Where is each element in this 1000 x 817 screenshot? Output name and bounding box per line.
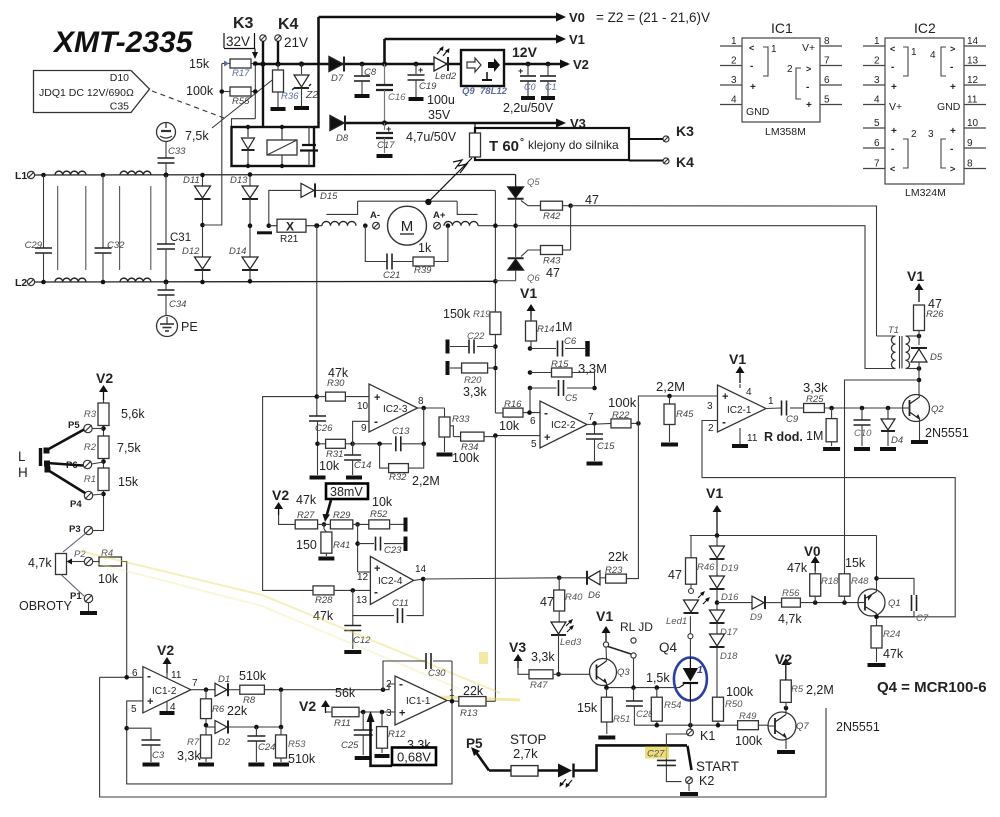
wire Q6 bottom to motor return: [495, 270, 515, 281]
diode D8: [330, 116, 344, 131]
svg-text:>: >: [950, 164, 955, 174]
diode D4: [887, 408, 889, 419]
resistor R51 15k: [606, 688, 608, 698]
svg-text:D5: D5: [930, 352, 943, 363]
capacitor C3: [124, 726, 129, 731]
svg-text:2,2M: 2,2M: [806, 683, 834, 697]
svg-text:Led2: Led2: [435, 71, 457, 82]
svg-text:47: 47: [928, 297, 942, 311]
svg-text:3: 3: [874, 75, 880, 86]
svg-text:D12: D12: [182, 246, 200, 257]
wire gate tie vertical: [570, 206, 572, 250]
resistor R11 56k: [332, 707, 359, 717]
wire Q3 emitter row: [604, 687, 679, 689]
svg-text:L: L: [18, 449, 26, 464]
svg-text:8: 8: [824, 36, 830, 47]
svg-text:C25: C25: [341, 740, 359, 751]
svg-text:V0: V0: [569, 10, 585, 25]
svg-text:+: +: [374, 392, 380, 404]
arrow 32V to R17 rail: [254, 49, 256, 53]
resistor R45 2,2M: [667, 394, 672, 399]
wire column to R16: [495, 412, 503, 414]
ground C3: [143, 763, 160, 767]
svg-text:R39: R39: [414, 265, 432, 276]
svg-text:R52: R52: [370, 509, 388, 520]
svg-text:8: 8: [418, 396, 424, 407]
svg-text:510k: 510k: [239, 669, 267, 683]
svg-text:R19: R19: [473, 309, 491, 320]
resistor R48 15k: [839, 574, 850, 596]
thermal fuse box T60: [475, 128, 629, 160]
svg-text:47k: 47k: [883, 647, 904, 661]
svg-text:T 60: T 60: [489, 138, 519, 155]
svg-text:V3: V3: [509, 639, 526, 655]
svg-text:C19: C19: [419, 81, 437, 92]
resistor R21 X: [267, 223, 272, 228]
svg-text:1,5k: 1,5k: [646, 671, 670, 685]
svg-text:47k: 47k: [787, 561, 808, 575]
svg-text:IC1-2: IC1-2: [152, 686, 177, 697]
svg-text:C23: C23: [384, 545, 402, 556]
resistor R34 100k: [461, 432, 484, 441]
ground R45: [661, 443, 678, 447]
svg-text:7,5k: 7,5k: [117, 441, 141, 455]
svg-text:R45: R45: [676, 409, 694, 420]
svg-text:3: 3: [731, 75, 737, 86]
junction R22 out: [636, 421, 641, 426]
regulator 78L12 box: [461, 50, 504, 86]
resistor R18 47k: [810, 574, 821, 596]
svg-text:11: 11: [967, 95, 978, 106]
junction R42: [568, 203, 573, 208]
capacitor C12: [352, 616, 354, 626]
inductor L1a: [55, 171, 86, 175]
wire V1 rail: [385, 38, 557, 41]
svg-text:C29: C29: [25, 240, 43, 251]
highlight stroke 4: [479, 652, 488, 664]
capacitor C19 100u: [414, 62, 419, 67]
svg-text:D11: D11: [183, 175, 200, 186]
ground R41: [318, 557, 334, 561]
svg-text:100k: 100k: [186, 84, 214, 98]
capacitor C30 feedback: [383, 661, 425, 690]
relay coil: [281, 127, 283, 140]
resistor R17 15k: [222, 63, 230, 65]
svg-text:C10: C10: [854, 428, 872, 439]
svg-text:D16: D16: [721, 592, 739, 603]
arrow V1: [556, 35, 566, 44]
svg-text:>: >: [806, 64, 811, 74]
resistor R32 2,2M: [380, 444, 389, 468]
svg-text:D4: D4: [891, 435, 903, 446]
diode chain D16: [716, 560, 718, 577]
svg-text:22k: 22k: [608, 550, 629, 564]
junction R18 R48 base: [813, 600, 818, 605]
capacitor C26: [309, 415, 326, 417]
ground C12: [344, 650, 361, 654]
wire L1 bus: [35, 174, 516, 177]
terminal bar C22: [446, 340, 450, 354]
wire Q1 emitter bottom: [876, 614, 878, 626]
wire relay to 21V node: [314, 122, 319, 127]
junction motor sense: [314, 223, 319, 228]
svg-text:100k: 100k: [735, 734, 763, 748]
transistor Q7 2N5551: [768, 712, 796, 740]
svg-text:Q2: Q2: [931, 404, 944, 415]
resistor R29 10k: [330, 520, 352, 529]
capacitor C23: [355, 541, 360, 546]
ground P1: [80, 611, 97, 615]
svg-text:V1: V1: [729, 351, 746, 367]
svg-text:2: 2: [787, 64, 793, 75]
svg-text:GND: GND: [746, 106, 770, 118]
diode D2: [206, 726, 215, 728]
junction R47 Led3: [556, 672, 561, 677]
svg-text:D19: D19: [721, 563, 739, 574]
wire Q2 base row: [843, 407, 903, 409]
wire stop mid: [538, 769, 558, 772]
svg-text:1: 1: [449, 688, 455, 699]
svg-text:6: 6: [530, 416, 536, 427]
svg-text:+: +: [950, 82, 956, 93]
svg-text:R23: R23: [605, 565, 623, 576]
svg-text:D13: D13: [230, 175, 248, 186]
svg-text:3: 3: [707, 401, 713, 412]
junction snubber right: [446, 223, 451, 228]
highlight C27: [645, 747, 669, 759]
svg-text:+: +: [518, 66, 523, 76]
svg-text:D10: D10: [110, 72, 129, 84]
resistor R15 3,3M: [528, 370, 533, 375]
resistor R36 7,5k: [277, 64, 279, 70]
svg-text:7: 7: [588, 412, 594, 423]
ground C25: [355, 756, 372, 760]
svg-text:D15: D15: [320, 191, 338, 202]
svg-text:9: 9: [361, 423, 367, 434]
capacitor C35: [308, 127, 310, 144]
svg-text:5: 5: [824, 95, 830, 106]
svg-text:5: 5: [531, 439, 537, 450]
diode D6 + R23 22k: [559, 577, 586, 579]
svg-text:10k: 10k: [98, 572, 119, 586]
svg-text:R6: R6: [212, 704, 225, 715]
choke core bars: [326, 201, 357, 214]
wire R23 riser to R22 node: [626, 423, 638, 578]
arrow V1 diode chain: [716, 512, 718, 536]
box 38mV: [326, 484, 368, 500]
svg-text:JDQ1 DC 12V/690Ω: JDQ1 DC 12V/690Ω: [39, 87, 134, 99]
capacitor C11 feedback: [353, 590, 394, 615]
wire Q4 cathode to K1: [689, 701, 691, 729]
thyristor Q6: [508, 259, 524, 270]
ground R53: [273, 763, 289, 767]
arrow V3 R47: [517, 661, 519, 668]
wire pin12 column: [357, 524, 359, 572]
svg-text:OBROTY: OBROTY: [19, 599, 72, 613]
svg-text:+: +: [544, 432, 550, 444]
potentiometer R12 3,3k: [381, 712, 383, 727]
svg-text:R53: R53: [288, 739, 306, 750]
resistor R19 150k: [490, 312, 501, 335]
LED stop optocoupler: [558, 764, 572, 778]
svg-text:L1: L1: [15, 170, 27, 182]
wire 21V riser to D8: [317, 64, 319, 123]
terminal K3 top: [260, 35, 266, 41]
capacitor C22: [493, 344, 498, 349]
svg-text:38mV: 38mV: [330, 485, 363, 499]
svg-text:+: +: [147, 696, 153, 708]
arrow V2 chain: [103, 392, 105, 400]
resistor R46 47: [686, 558, 697, 584]
ground R24: [868, 663, 886, 667]
arrow V2 IC1-2: [166, 664, 168, 673]
capacitor C21 snubber: [365, 226, 387, 262]
svg-text:R2: R2: [84, 442, 97, 453]
switch K1: [687, 729, 694, 736]
potentiometer R33: [444, 408, 446, 417]
svg-text:100k: 100k: [726, 685, 754, 699]
wire K4 column: [277, 41, 279, 64]
svg-text:R21: R21: [280, 234, 299, 245]
resistor R7 3,3k: [205, 727, 207, 735]
svg-text:+: +: [374, 563, 380, 575]
svg-text:1M: 1M: [806, 429, 823, 443]
capacitor C10: [861, 408, 863, 420]
arrow V0: [556, 13, 566, 22]
svg-text:R25: R25: [806, 394, 824, 405]
resistor R24 47k: [871, 626, 882, 648]
arrow V0 R18: [814, 563, 816, 571]
ground C24: [248, 763, 264, 767]
svg-text:IC2-3: IC2-3: [383, 404, 408, 415]
svg-text:12: 12: [357, 572, 369, 583]
capacitor C13 feedback: [353, 443, 392, 445]
ground K2: [680, 792, 698, 796]
svg-text:100k: 100k: [608, 395, 637, 410]
neon lamp: [157, 123, 176, 142]
svg-text:-: -: [806, 82, 809, 93]
svg-text:Led1: Led1: [666, 616, 687, 627]
svg-text:Q7: Q7: [796, 721, 809, 732]
svg-text:10: 10: [357, 401, 369, 412]
capacitor C31: [164, 173, 169, 178]
svg-text:-: -: [399, 677, 403, 691]
wire K4 stub: [629, 160, 663, 162]
svg-text:R3: R3: [84, 409, 97, 420]
svg-text:47: 47: [546, 266, 560, 280]
junction R28 pin13: [351, 588, 356, 593]
svg-text:-: -: [750, 61, 753, 72]
svg-text:5,6k: 5,6k: [121, 407, 145, 421]
svg-text:K2: K2: [699, 774, 714, 788]
resistor R54 1,5k: [656, 688, 658, 698]
svg-text:R49: R49: [739, 711, 757, 722]
LED Led3: [558, 611, 560, 622]
svg-text:+: +: [891, 82, 897, 93]
resistor R20 3,3k: [493, 366, 498, 371]
svg-text:-: -: [544, 406, 548, 420]
wire L2 bus: [35, 280, 495, 283]
svg-text:STOP: STOP: [510, 732, 547, 747]
ground C0: [521, 96, 535, 100]
terminal bar R20: [446, 361, 450, 375]
svg-text:15k: 15k: [845, 556, 866, 570]
resistor R25 3,3k: [804, 404, 825, 413]
svg-text:C30: C30: [428, 668, 446, 679]
inductor L1b: [120, 171, 151, 175]
svg-text:-: -: [950, 144, 953, 155]
svg-text:Q4 = MCR100-6: Q4 = MCR100-6: [877, 679, 987, 696]
wiper R12 to 0,68V: [371, 722, 393, 766]
svg-text:3,3k: 3,3k: [531, 650, 555, 664]
wire K3 column: [262, 41, 264, 127]
svg-text:R11: R11: [334, 718, 351, 729]
motor M: [388, 206, 427, 245]
leader 7,5k to R36: [212, 73, 281, 128]
diode D5: [917, 334, 922, 339]
resistor R5 2,2M: [785, 702, 787, 708]
svg-text:2: 2: [731, 56, 737, 67]
arrow 38mV pointer: [327, 500, 332, 516]
junction R8: [279, 687, 284, 692]
svg-text:P5: P5: [68, 420, 80, 431]
wire stop to K1: [575, 745, 688, 770]
svg-text:1: 1: [768, 396, 774, 407]
svg-text:1: 1: [771, 44, 777, 55]
svg-text:C33: C33: [168, 146, 186, 157]
diode chain D19: [716, 536, 718, 547]
svg-text:R41: R41: [333, 540, 350, 551]
capacitor C29: [41, 173, 46, 178]
wire D5 to Q2 collector: [918, 369, 920, 397]
resistor R55 100k: [222, 91, 230, 93]
junction R29-R52: [355, 522, 360, 527]
svg-text:12: 12: [967, 75, 979, 86]
svg-text:<: <: [890, 164, 895, 174]
svg-text:+: +: [418, 65, 423, 75]
svg-text:C8: C8: [364, 67, 377, 78]
svg-text:2,2M: 2,2M: [656, 379, 685, 394]
ground C8: [355, 94, 370, 98]
svg-text:7,5k: 7,5k: [185, 129, 209, 143]
svg-text:C27: C27: [647, 749, 665, 760]
svg-text:R12: R12: [388, 729, 406, 740]
svg-text:C9: C9: [786, 414, 799, 425]
diode chain D18: [716, 624, 718, 635]
dashed leader line: [152, 91, 224, 118]
svg-text:M: M: [401, 218, 414, 235]
svg-text:-: -: [891, 144, 894, 155]
svg-text:P1: P1: [70, 591, 82, 602]
diode D1: [215, 683, 227, 696]
svg-text:Q4: Q4: [659, 640, 678, 655]
resistor R39: [392, 261, 413, 263]
wire outer feedback loop: [100, 677, 826, 797]
wire chain to R50: [716, 648, 718, 698]
svg-text:C5: C5: [565, 393, 578, 404]
motor sense bracket: [358, 200, 458, 202]
svg-text:32V: 32V: [226, 34, 250, 49]
capacitor C0: [526, 62, 531, 67]
svg-text:P4: P4: [70, 499, 82, 510]
op-amp IC1-1: [395, 676, 447, 725]
terminal bar C23: [404, 537, 408, 552]
op-amp IC1-2: [143, 667, 191, 713]
svg-text:L2: L2: [15, 277, 27, 289]
capacitor C6: [528, 346, 533, 351]
svg-text:9: 9: [967, 138, 973, 149]
svg-text:V2: V2: [272, 487, 289, 503]
resistor R49 100k: [738, 721, 759, 730]
svg-text:R40: R40: [565, 592, 583, 603]
inductor motor A+ choke: [444, 221, 478, 225]
svg-text:V2: V2: [573, 57, 589, 72]
svg-text:K4: K4: [278, 16, 299, 33]
highlight stroke 3: [437, 697, 520, 700]
ground R12: [375, 754, 390, 758]
svg-text:R55: R55: [232, 96, 250, 107]
svg-text:10: 10: [967, 118, 979, 129]
resistor R40 47: [558, 578, 560, 590]
svg-text:V1: V1: [596, 608, 613, 624]
svg-text:10k: 10k: [372, 495, 393, 509]
earth PE symbol: [157, 316, 178, 337]
arrow V1 switch: [605, 633, 607, 641]
junction R27-R29: [322, 522, 327, 527]
svg-text:C1: C1: [545, 82, 557, 92]
resistor R52: [369, 520, 390, 529]
svg-text:47k: 47k: [296, 493, 317, 507]
svg-text:R28: R28: [315, 595, 333, 606]
svg-text:47k: 47k: [328, 366, 349, 380]
highlight stroke 1: [80, 551, 500, 693]
svg-text:13: 13: [356, 595, 368, 606]
wire IC2-2 output: [587, 423, 611, 424]
svg-text:78L12: 78L12: [480, 86, 508, 97]
resistor R43 gate: [521, 250, 541, 257]
capacitor C34: [165, 282, 167, 290]
wire IC2-3 output: [418, 407, 445, 409]
capacitor C7: [877, 578, 915, 595]
svg-text:100k: 100k: [452, 451, 480, 465]
svg-text:D1: D1: [218, 674, 230, 685]
svg-text:D7: D7: [331, 73, 344, 84]
wire K3 rail to bridge mid: [203, 130, 222, 225]
resistor STOP 2,7k: [511, 766, 538, 777]
svg-text:K4: K4: [676, 154, 694, 170]
svg-text:6: 6: [824, 75, 830, 86]
resistor R22 100k: [611, 419, 631, 428]
svg-text:47: 47: [585, 193, 599, 207]
svg-text:-: -: [722, 415, 726, 429]
svg-text:R5: R5: [791, 684, 804, 695]
svg-text:°: °: [520, 137, 524, 148]
capacitor C16: [384, 64, 386, 85]
svg-text:10k: 10k: [319, 459, 340, 473]
svg-text:<: <: [890, 44, 895, 54]
svg-text:4,7k: 4,7k: [28, 556, 52, 570]
svg-text:C34: C34: [169, 299, 186, 310]
wire to pin3: [638, 396, 717, 423]
wire K3 stub: [629, 128, 663, 139]
svg-text:3,3k: 3,3k: [463, 385, 487, 399]
svg-text:6: 6: [874, 138, 880, 149]
op-amp IC2-2: [540, 401, 587, 448]
capacitor C33: [165, 142, 167, 159]
svg-text:C32: C32: [107, 240, 125, 251]
svg-text:4: 4: [930, 50, 936, 61]
svg-text:11: 11: [171, 670, 182, 681]
